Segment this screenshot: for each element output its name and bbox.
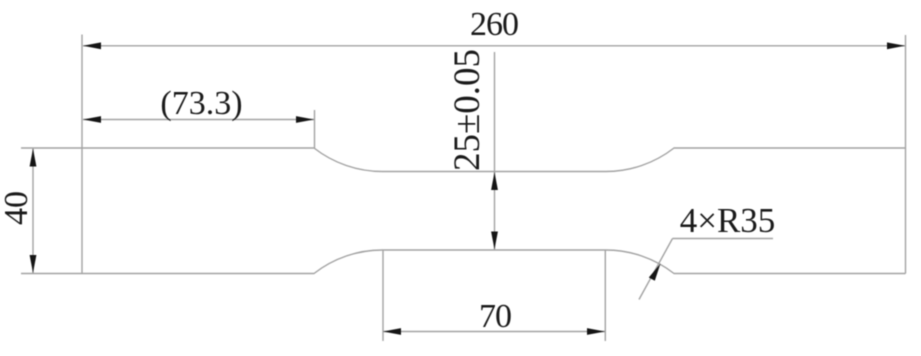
svg-text:4×R35: 4×R35 bbox=[680, 201, 776, 240]
extension line top of 40 dim bbox=[21, 147, 82, 149]
arrowhead (73.3) right bbox=[296, 116, 314, 123]
dimension line 40 bbox=[32, 149, 34, 274]
arrowhead 40 bottom bbox=[30, 255, 37, 273]
dimension line 70 bbox=[383, 331, 605, 333]
extension line right of (73.3) dim bbox=[314, 110, 316, 148]
dimension line (73.3) bbox=[83, 119, 314, 121]
arrowhead 70 right bbox=[587, 328, 605, 335]
arrowhead 25 bottom bbox=[491, 232, 498, 250]
arrowhead (73.3) left bbox=[83, 116, 101, 123]
arrowhead 70 left bbox=[383, 328, 401, 335]
svg-text:260: 260 bbox=[470, 6, 518, 43]
leader shelf line for 4xR35 bbox=[673, 238, 774, 240]
svg-text:40: 40 bbox=[0, 191, 35, 225]
specimen outline top edge bbox=[82, 148, 906, 172]
arrowhead 25 top bbox=[491, 172, 498, 190]
specimen left edge bbox=[81, 148, 83, 274]
arrowhead 260 left bbox=[83, 42, 101, 49]
leader slanted line for 4xR35 bbox=[639, 239, 673, 300]
extension line right of 70 dim bbox=[604, 250, 606, 341]
extension line left of 70 dim bbox=[382, 250, 384, 341]
specimen right edge bbox=[905, 148, 907, 274]
specimen outline bottom edge bbox=[82, 250, 906, 274]
extension line bottom of 40 dim bbox=[21, 273, 82, 275]
dimension line 25±0.05 with upper extension bbox=[494, 52, 496, 250]
svg-text:70: 70 bbox=[479, 298, 511, 335]
arrowhead R35 leader bbox=[649, 264, 661, 281]
arrowhead 260 right bbox=[887, 42, 905, 49]
svg-text:(73.3): (73.3) bbox=[160, 85, 242, 122]
arrowhead 40 top bbox=[30, 149, 37, 167]
extension line left of 260 dim bbox=[81, 35, 83, 149]
dimension line 260 bbox=[83, 45, 905, 47]
extension line right of 260 dim bbox=[905, 35, 907, 148]
svg-text:25±0.05: 25±0.05 bbox=[447, 49, 488, 171]
